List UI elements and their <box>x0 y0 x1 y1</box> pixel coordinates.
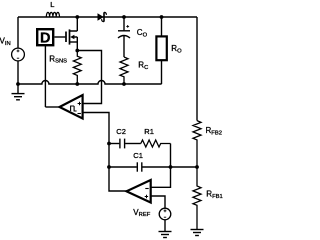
resistor R1 <box>141 140 171 147</box>
svg-text:VIN: VIN <box>0 37 11 48</box>
inductor L <box>46 12 59 17</box>
resistor RO (box) <box>156 17 166 84</box>
diode D1 (Schottky) <box>98 12 107 21</box>
resistor RFB2 <box>193 121 201 167</box>
node VIN ground junction <box>16 82 20 86</box>
wire output right rail <box>196 17 198 121</box>
wire D bottom to comparator output <box>44 45 46 107</box>
op-amp error amplifier <box>127 180 151 203</box>
svg-text:RO: RO <box>171 44 182 54</box>
resistor RSNS <box>73 51 81 85</box>
svg-text:D: D <box>40 31 50 47</box>
wire top rail <box>18 16 197 18</box>
wire D output to gate <box>55 36 66 38</box>
wire VIN to top rail <box>17 17 19 48</box>
node output junction (Co) <box>122 15 126 19</box>
svg-text:C2: C2 <box>116 127 126 136</box>
ground (input) <box>12 84 25 100</box>
wire comparator - input to COMP node <box>83 113 127 192</box>
wire FB node to divider <box>171 166 198 168</box>
ground rail with hops <box>18 81 162 84</box>
node source junction <box>75 49 79 53</box>
source VIN <box>12 48 25 61</box>
wire sense line source to comparator + <box>77 51 101 104</box>
node RC ground junction <box>122 82 126 86</box>
svg-text:VREF: VREF <box>133 208 150 218</box>
wire R1 down to error amp - input <box>151 144 171 188</box>
svg-text:R1: R1 <box>144 127 154 136</box>
wire comparator output <box>45 106 59 108</box>
op-amp PWM comparator <box>60 95 83 119</box>
driver block D <box>37 29 53 46</box>
node C1 R1 FB junction <box>169 165 173 169</box>
svg-text:L: L <box>50 0 54 9</box>
svg-text:RSNS: RSNS <box>49 54 67 64</box>
node COMP C2 junction <box>107 142 111 146</box>
svg-text:CO: CO <box>137 28 148 38</box>
svg-text:RC: RC <box>138 61 148 71</box>
svg-text:C1: C1 <box>133 151 143 160</box>
capacitor C1 <box>109 162 171 171</box>
node drain junction <box>75 15 79 19</box>
resistor RFB1 <box>193 167 201 229</box>
node RSNS ground junction <box>75 82 79 86</box>
resistor RC <box>120 57 128 84</box>
node COMP C1 junction <box>107 165 111 169</box>
wire VIN to ground rail <box>17 61 19 84</box>
source VREF <box>159 208 171 220</box>
ground (VREF) <box>159 220 172 238</box>
node FB junction <box>195 165 199 169</box>
transistor Q1 (N-MOSFET) <box>66 17 77 51</box>
node RO top junction <box>160 15 164 19</box>
ground (RFB1) <box>191 230 204 236</box>
capacitor C2 <box>109 139 141 149</box>
wire error amp + input to VREF <box>151 196 165 208</box>
capacitor CO (polarized) <box>118 17 130 57</box>
svg-text:RFB1: RFB1 <box>206 190 222 200</box>
svg-text:RFB2: RFB2 <box>206 126 222 136</box>
